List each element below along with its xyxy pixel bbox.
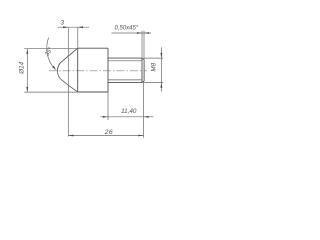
3 extension line right (77, 28, 79, 49)
stud top edge (108, 57, 142, 59)
svg-text:0,50x45°: 0,50x45° (115, 26, 139, 32)
svg-text:M8: M8 (150, 62, 157, 71)
11,40 dimension line (101, 116, 154, 118)
centerline (axis of revolution) (49, 70, 147, 72)
chamfer extension line b (143, 31, 145, 60)
26 arrow right (138, 135, 143, 137)
cylinder bottom edge (78, 91, 108, 93)
35° arc (47, 38, 54, 69)
M8 dimension line (160, 47, 162, 91)
Ø14 extension line top (24, 48, 77, 50)
cylinder top edge (78, 47, 108, 49)
svg-text:11,40: 11,40 (121, 108, 137, 115)
M8 arrow bottom (160, 83, 162, 88)
chamfer slant bottom (142, 81, 144, 83)
cone nose upper profile (57, 48, 77, 71)
svg-text:Ø14: Ø14 (19, 61, 26, 74)
cylinder right face (107, 48, 109, 92)
M8 arrow top (160, 53, 162, 58)
right extension line (end face extended, shared 11,40 / 26) (143, 81, 145, 138)
chamfer arrow left (137, 32, 142, 34)
thread crest line bottom (108, 79, 142, 81)
chamfer dimension line with tails (112, 32, 152, 34)
chamfer line across stud (141, 58, 143, 83)
Ø14 extension line bottom (24, 91, 77, 93)
M8 extension line bottom (144, 82, 163, 84)
stud bottom edge (108, 82, 142, 84)
stud end face (143, 60, 145, 81)
cone nose lower profile (57, 71, 77, 92)
Ø14 arrow down (26, 87, 28, 92)
Ø14 arrow up (26, 49, 28, 54)
26 dimension line (68, 135, 143, 137)
3 dimension line (58, 26, 90, 28)
thread crest line top (108, 60, 142, 62)
26 arrow left (68, 135, 73, 137)
chamfer extension line a (141, 31, 143, 58)
11,40 arrow left (103, 116, 108, 118)
11,40 extension line left (cylinder edge extended) (107, 92, 109, 120)
long extension line through part (3 top / 26 bottom) (67, 28, 69, 137)
35° arc arrow (52, 66, 56, 71)
Ø14 dimension line (26, 49, 28, 92)
3 arrow left (63, 26, 68, 28)
3 arrow right (78, 26, 83, 28)
cone/cylinder junction line (77, 48, 79, 92)
chamfer arrow right (144, 32, 149, 34)
svg-text:26: 26 (104, 129, 114, 136)
chamfer slant top (142, 58, 144, 60)
M8 extension line top (144, 57, 163, 59)
svg-text:3: 3 (61, 19, 65, 26)
11,40 arrow right (144, 116, 149, 118)
